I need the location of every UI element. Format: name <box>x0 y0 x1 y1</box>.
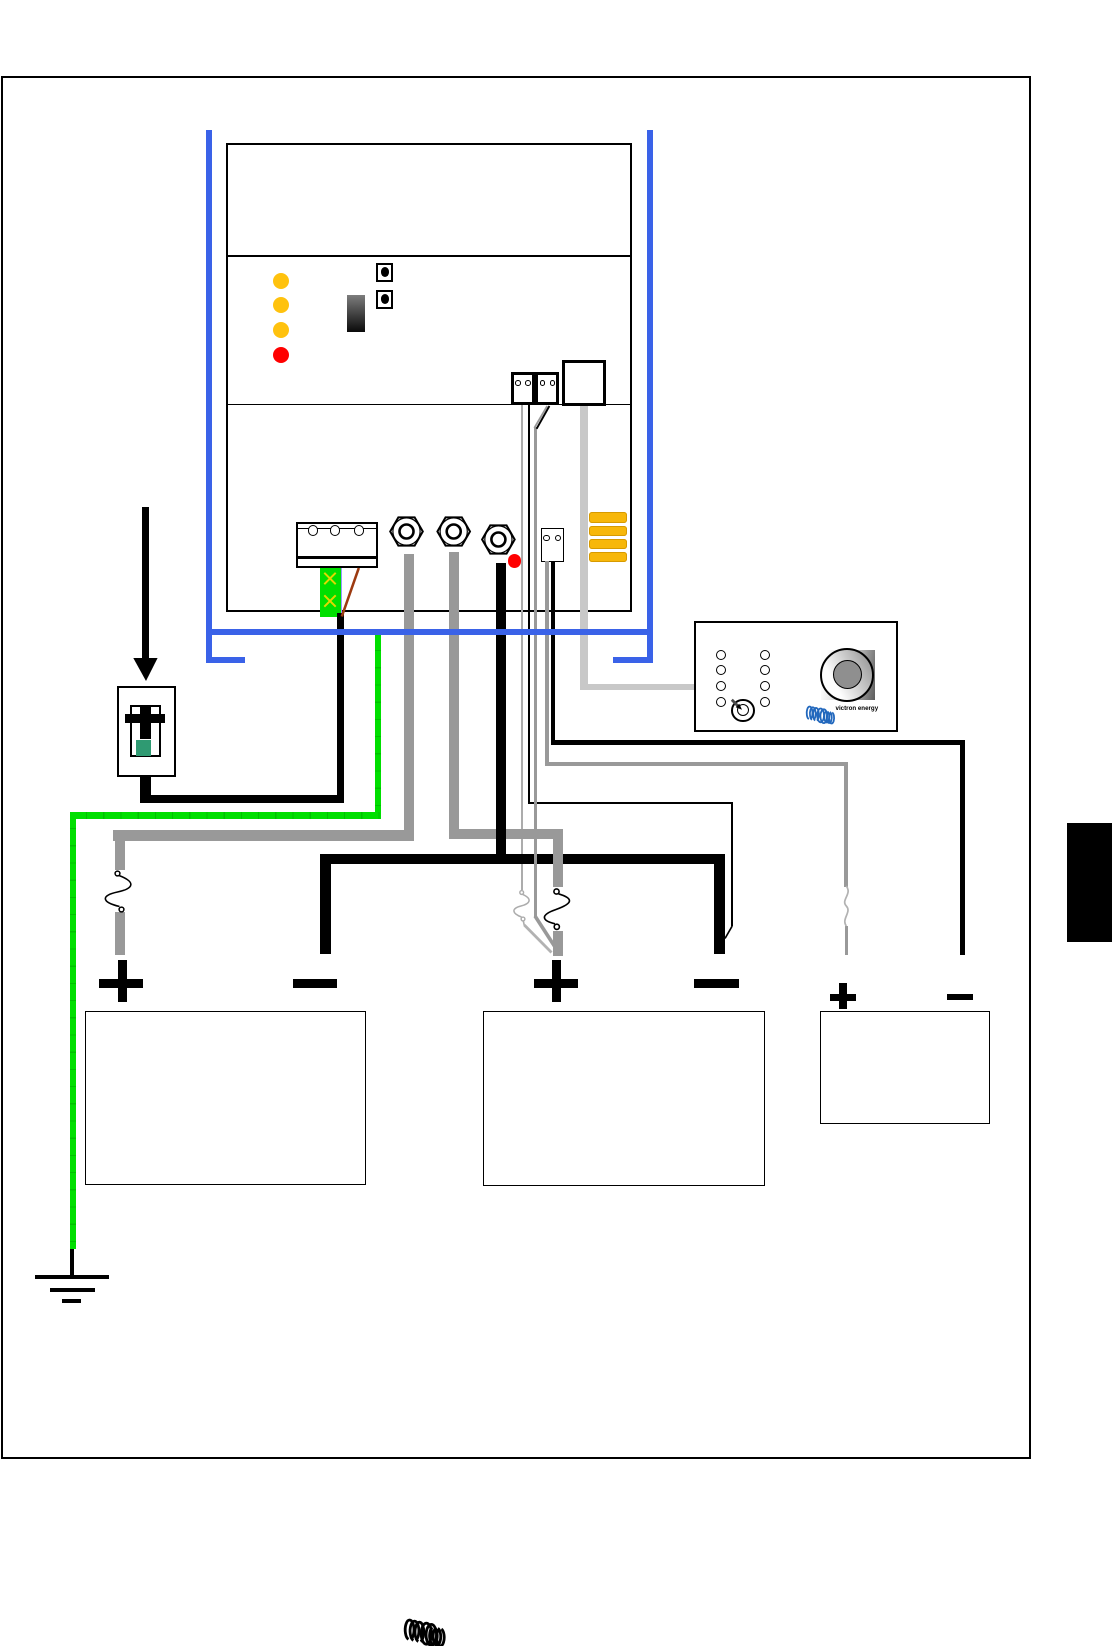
fuse1 wire squiggle <box>105 876 130 907</box>
charger divider lower <box>228 404 631 406</box>
aux pin a <box>543 535 549 541</box>
page frame <box>1 76 1031 1459</box>
charger divider upper <box>228 255 631 257</box>
aux black wire vertical <box>551 561 555 744</box>
RJ socket box <box>562 360 606 406</box>
battery 2 box <box>483 1011 765 1186</box>
AC terminal screw 2 <box>330 525 340 535</box>
battery3 minus vertical <box>960 740 965 955</box>
yellow fuse bar 1 <box>589 512 627 522</box>
aux pin b <box>555 535 561 541</box>
panel big knob backdrop <box>821 650 875 701</box>
battery2 plus vertical upper <box>553 839 563 887</box>
charger enclosure box <box>226 143 632 612</box>
DC plus wire 1 vertical <box>404 554 414 842</box>
AC input arrow shaft <box>142 507 149 658</box>
DC minus vertical from charger <box>496 563 506 865</box>
green connector X mark 2 <box>324 595 335 606</box>
DC plus wire 2 vertical <box>449 552 459 839</box>
AC terminal thick bar <box>298 556 376 559</box>
aux small connector box <box>541 528 564 562</box>
green connector X mark 1 <box>324 573 335 584</box>
DC minus bus bar <box>320 854 525 864</box>
blue left vertical <box>206 130 212 663</box>
earth green left leg <box>70 812 76 1249</box>
plug cross vertical <box>140 705 151 739</box>
battery2 minus leg <box>714 854 725 954</box>
blue left foot <box>206 657 246 663</box>
sense connector block 2 <box>535 372 559 405</box>
panel led col2 r4 <box>760 697 770 707</box>
dip switch slider <box>347 295 365 332</box>
sense fuse top lug <box>520 891 524 895</box>
sense diagonal light gray <box>523 921 524 926</box>
battery 1 box <box>85 1011 366 1186</box>
hex terminal nut 3 <box>482 525 515 553</box>
panel small knob inner <box>737 704 749 716</box>
LED yellow 1 <box>273 273 289 289</box>
remote panel box <box>694 621 898 732</box>
panel brand text <box>836 705 906 715</box>
ground symbol <box>70 1242 74 1275</box>
fuse2 top lug <box>554 889 559 894</box>
battery2 minus symbol <box>694 979 739 988</box>
LED yellow 2 <box>273 297 289 313</box>
blue right vertical <box>647 130 653 663</box>
AC cable green connector <box>320 568 341 618</box>
battery3 plus vertical <box>844 762 849 887</box>
panel led col1 r3 <box>716 681 726 691</box>
sense slant black <box>537 406 550 429</box>
block2 pin a <box>540 380 546 386</box>
aux gray wire vertical <box>545 561 549 764</box>
block1 pin b <box>525 380 531 386</box>
earth green horizontal <box>70 812 381 819</box>
page thumb tab black <box>1067 823 1112 942</box>
hex terminal nut 2 <box>437 517 470 545</box>
battery3 minus symbol <box>947 994 973 1001</box>
hex terminal nut 1 <box>390 517 423 545</box>
blue right foot <box>613 657 653 663</box>
fuse2 bottom lug <box>554 924 559 929</box>
battery2 plus symbol <box>534 979 578 988</box>
sense wire thin black vertical right <box>731 802 733 926</box>
AC terminal screw 1 <box>308 525 318 535</box>
battery1 plus symbol <box>99 979 143 988</box>
aux black wire horizontal to battery3 <box>551 740 965 745</box>
AC live black wire to plug <box>140 777 151 803</box>
jumper box 1 <box>376 263 393 282</box>
AC cable blue edge <box>341 568 343 615</box>
block2 pin b <box>550 380 556 386</box>
ctrl diagonal gray <box>535 916 556 949</box>
fuse1 upper stub <box>115 841 126 870</box>
AC live black wire vertical from connector <box>337 613 344 803</box>
panel big knob center <box>833 660 862 689</box>
yellow fuse bar 4 <box>589 552 627 562</box>
sense wire thin black horizontal <box>528 802 733 804</box>
panel led col2 r3 <box>760 681 770 691</box>
AC terminal inner line <box>298 528 376 529</box>
block1 pin a <box>515 380 521 386</box>
victron coil logo blue <box>807 707 834 724</box>
AC live black wire horizontal <box>140 795 344 803</box>
red dot on DC minus <box>508 554 521 567</box>
AC input arrowhead <box>133 658 157 681</box>
comm cable vertical <box>580 406 588 690</box>
panel led col1 r4 <box>716 697 726 707</box>
sense slant gray <box>534 406 547 428</box>
plug cross horizontal <box>125 714 165 724</box>
sense wire thin black vertical <box>528 405 530 803</box>
sense wire light gray vertical <box>521 405 523 890</box>
DC plus wire 1 horizontal <box>113 830 414 841</box>
AC terminal block <box>296 522 378 568</box>
fuse1 top lug <box>115 871 120 876</box>
earth green vertical below charger <box>375 634 381 819</box>
LED yellow 3 <box>273 322 289 338</box>
jumper box 2 <box>376 290 393 309</box>
aux gray wire horizontal to battery3 <box>545 762 848 766</box>
battery2 plus lower stub <box>553 931 563 956</box>
sense diagonal thin black to minus leg <box>725 926 732 939</box>
blue horizontal rail <box>206 629 653 635</box>
fuse1 lower stub <box>115 912 126 955</box>
victron coil logo black bottom <box>405 1620 444 1646</box>
panel led col1 r1 <box>716 650 726 660</box>
sense connector block 1 <box>511 372 535 405</box>
panel led col1 r2 <box>716 665 726 675</box>
panel big knob ring <box>820 648 874 702</box>
battery1 minus symbol <box>293 979 337 988</box>
AC terminal screw 3 <box>354 525 364 535</box>
panel led col2 r2 <box>760 665 770 675</box>
battery3 plus symbol <box>830 994 857 1002</box>
comm cable horizontal <box>580 684 694 690</box>
plug inner outline <box>130 705 161 757</box>
battery3 plus lower stub <box>845 926 849 955</box>
sense fuse bottom lug <box>521 917 525 921</box>
panel small knob outer <box>731 699 755 723</box>
fuse2 wire squiggle <box>544 894 569 924</box>
plug teal contact <box>136 740 150 756</box>
jumper dot 2 <box>381 294 389 304</box>
panel led col2 r1 <box>760 650 770 660</box>
yellow fuse bar 2 <box>589 526 627 536</box>
ctrl gray wire vertical <box>534 427 538 917</box>
sense squiggle light gray <box>514 894 529 917</box>
battery3 fuse squiggle <box>845 886 848 926</box>
DC plus wire 2 horizontal <box>449 829 563 839</box>
brown AC wire <box>342 568 359 617</box>
LED red <box>273 347 289 363</box>
yellow fuse bar 3 <box>589 539 627 549</box>
battery 3 box <box>820 1011 990 1125</box>
battery1 minus leg <box>320 854 331 954</box>
panel knob needle <box>732 700 742 710</box>
jumper dot 1 <box>381 267 389 277</box>
fuse1 bottom lug <box>119 907 124 912</box>
AC wall plug box <box>117 686 177 778</box>
